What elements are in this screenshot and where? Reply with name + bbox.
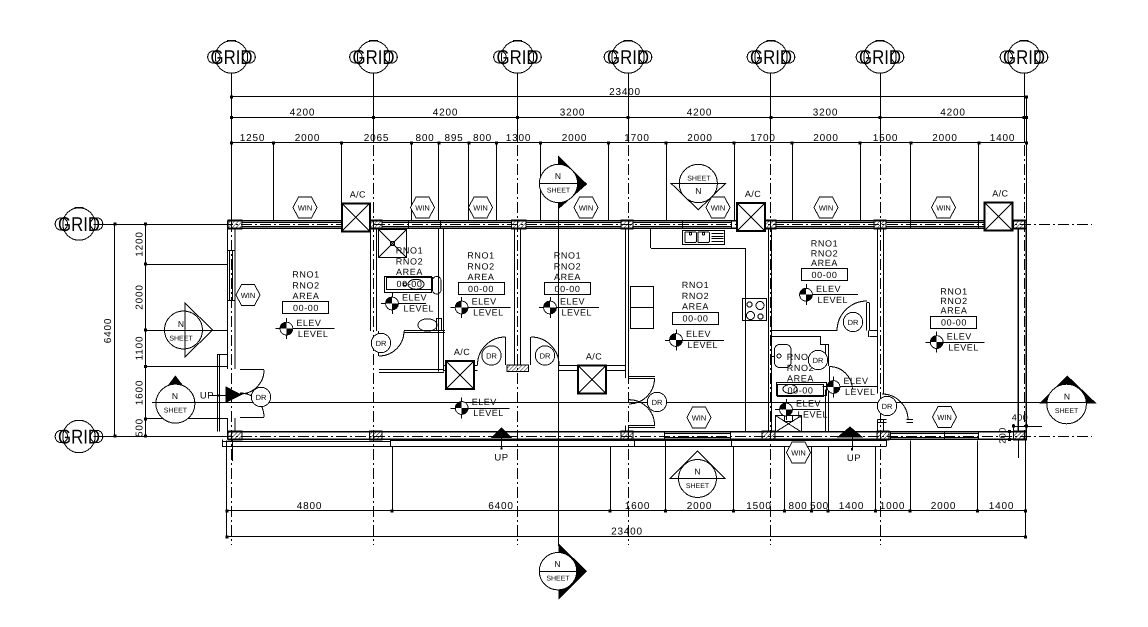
svg-text:4200: 4200 (687, 108, 712, 119)
elevation marker room 2 (451, 297, 511, 318)
svg-text:RNO1: RNO1 (811, 239, 838, 249)
elevation marker hall (451, 397, 510, 418)
bathroom 2 right wall (825, 345, 827, 366)
grid line B stem (94, 436, 228, 438)
wall pier T7 (hatched) (1014, 220, 1027, 229)
bathroom 1 right wall (438, 228, 440, 371)
svg-text:SHEET: SHEET (164, 408, 188, 415)
room 5 door leaf and swing (866, 303, 868, 331)
elevation marker kitchen (665, 329, 724, 350)
grid line 4 stem (628, 74, 630, 144)
right apron edge (1018, 440, 1020, 458)
shower 2 (776, 416, 802, 433)
svg-text:895: 895 (444, 133, 463, 144)
svg-text:AREA: AREA (468, 272, 495, 282)
living room divider wall (745, 248, 747, 432)
hall wall segment west (444, 365, 478, 367)
svg-text:GRID: GRID (750, 47, 792, 69)
air conditioner A/C 3 (984, 189, 1012, 231)
grid line 4 centerline (628, 145, 630, 545)
svg-text:WIN: WIN (819, 203, 834, 212)
section cut line horizontal (152, 402, 1095, 404)
elevation marker bathroom 2 (775, 399, 828, 420)
svg-text:800: 800 (788, 501, 807, 512)
terrace UP arrow (492, 428, 511, 438)
grid line 2 centerline (373, 145, 375, 545)
svg-text:00-00: 00-00 (787, 386, 813, 396)
svg-text:AREA: AREA (941, 305, 968, 315)
room label room 3 (545, 251, 591, 295)
hall top wall (room1 side) (379, 369, 444, 371)
room label room 7 (931, 287, 977, 329)
left exterior wall (228, 221, 236, 440)
section marker left lower (filled up arrow) (152, 376, 228, 423)
svg-text:6400: 6400 (488, 501, 513, 512)
window tag WIN 7 (814, 197, 838, 218)
bathroom 2 door leaf and swing (829, 367, 831, 390)
svg-text:DR: DR (652, 398, 663, 407)
svg-text:00-00: 00-00 (293, 303, 319, 313)
elevation marker room 1 (275, 318, 334, 339)
svg-text:2000: 2000 (813, 133, 838, 144)
svg-text:RNO1: RNO1 (292, 270, 319, 280)
grid line 2 stem (373, 74, 375, 144)
svg-text:2000: 2000 (562, 133, 587, 144)
left entry double door swings (240, 370, 264, 394)
svg-text:2000: 2000 (295, 133, 320, 144)
elevation marker bathroom 1 (381, 293, 434, 314)
grid line 5 centerline (770, 145, 772, 545)
hall wall segment east (559, 365, 626, 367)
air conditioner A/C 1 (342, 189, 370, 231)
grid line 1 stem (231, 74, 233, 144)
svg-text:N: N (178, 319, 184, 329)
svg-text:2065: 2065 (364, 133, 389, 144)
svg-text:1600: 1600 (625, 501, 650, 512)
grid bubble 5 (top) (747, 41, 795, 74)
svg-text:LEVEL: LEVEL (688, 340, 719, 350)
svg-text:WIN: WIN (241, 291, 256, 300)
wall pier T5 (hatched) (764, 220, 776, 229)
svg-text:RNO2: RNO2 (554, 261, 581, 271)
door tag DR 6 (808, 350, 827, 369)
partition wall rooms 6-7 (877, 228, 879, 393)
grid line 3 stem (517, 74, 519, 144)
top dimension extension lines (232, 97, 1027, 221)
svg-text:SHEET: SHEET (547, 188, 571, 195)
section marker right (filled up arrow) (1040, 376, 1095, 424)
svg-text:SHEET: SHEET (1055, 408, 1079, 415)
svg-text:RNO2: RNO2 (682, 291, 709, 301)
svg-text:WIN: WIN (711, 203, 726, 212)
overall left dimension 6400 (103, 223, 117, 438)
air conditioner A/C 4 (446, 347, 474, 389)
svg-text:GRID: GRID (353, 47, 395, 69)
partition wall rooms 2-3 (514, 228, 516, 365)
svg-text:DR: DR (486, 351, 497, 360)
svg-text:00-00: 00-00 (941, 317, 967, 327)
svg-text:00-00: 00-00 (682, 314, 708, 324)
svg-text:DR: DR (813, 356, 824, 365)
svg-text:RNO1: RNO1 (396, 246, 423, 256)
svg-text:1600: 1600 (135, 380, 146, 405)
svg-text:A/C: A/C (745, 189, 761, 199)
room 3 door leaf and swing (530, 337, 532, 365)
grid bubble A (left top) (55, 208, 103, 241)
wall pier B2 (hatched) (370, 431, 383, 440)
door tag DR 8 (877, 396, 896, 415)
svg-text:23400: 23400 (611, 527, 643, 538)
bathroom 2 top wall (770, 336, 821, 338)
top exterior wall (228, 221, 1027, 229)
svg-text:N: N (1064, 391, 1070, 401)
svg-text:AREA: AREA (396, 267, 423, 277)
grid bubble 2 (top) (350, 41, 398, 74)
svg-text:N: N (694, 467, 700, 477)
elevation marker room 7 (926, 331, 985, 352)
svg-text:LEVEL: LEVEL (798, 410, 829, 420)
grid bubble 6 (top) (856, 41, 904, 74)
grid line 6 stem (880, 74, 882, 144)
svg-text:LEVEL: LEVEL (948, 342, 979, 352)
svg-text:A/C: A/C (586, 352, 602, 362)
svg-text:GRID: GRID (58, 427, 100, 449)
wall pier B3 (hatched) (621, 431, 633, 440)
grid line 7 stem (1024, 74, 1026, 144)
svg-text:WIN: WIN (579, 203, 594, 212)
grid line 7 centerline (1024, 145, 1026, 440)
room 7 door swing (882, 394, 908, 420)
svg-text:DR: DR (848, 318, 859, 327)
left apron edge (222, 441, 390, 443)
door tag DR 4 (535, 346, 554, 365)
svg-text:500: 500 (810, 501, 829, 512)
svg-text:6400: 6400 (103, 318, 114, 343)
svg-text:1250: 1250 (240, 133, 265, 144)
svg-text:2000: 2000 (932, 133, 957, 144)
wall pier hall (hatched) (507, 365, 529, 371)
grid bubble 1 (top) (208, 41, 256, 74)
svg-text:4800: 4800 (297, 501, 322, 512)
section marker top (filled right arrow) (539, 157, 586, 221)
svg-text:1300: 1300 (506, 133, 531, 144)
svg-text:N: N (554, 559, 560, 569)
window tag WIN 2 (293, 197, 317, 218)
grid line 5 stem (770, 74, 772, 144)
svg-text:2000: 2000 (687, 133, 712, 144)
svg-text:N: N (172, 391, 178, 401)
svg-text:GRID: GRID (607, 47, 649, 69)
bottom fine dimensions row (226, 501, 1028, 513)
left dimension extension lines (146, 265, 228, 419)
air conditioner A/C 5 (578, 352, 606, 394)
window tag WIN 5 (574, 197, 598, 218)
svg-text:DR: DR (376, 339, 387, 348)
svg-text:RNO2: RNO2 (292, 280, 319, 290)
stove (743, 299, 767, 321)
grid line 6 centerline (880, 145, 882, 545)
window tag WIN 11 (787, 442, 811, 463)
section marker left middle (open right arrow) (152, 303, 228, 357)
window tag WIN 1 (236, 285, 260, 306)
svg-text:GRID: GRID (1003, 47, 1045, 69)
svg-text:200: 200 (998, 427, 1008, 444)
section marker top middle (down triangle) (671, 164, 725, 209)
svg-text:1500: 1500 (873, 133, 898, 144)
svg-text:LEVEL: LEVEL (818, 295, 849, 305)
svg-text:1500: 1500 (746, 501, 771, 512)
top tier dimensions row (230, 108, 1028, 120)
elevation marker room 3 (539, 297, 599, 318)
svg-text:ELEV: ELEV (947, 331, 972, 341)
room label bathroom 1 (387, 246, 433, 290)
svg-text:1700: 1700 (750, 133, 775, 144)
svg-text:A/C: A/C (454, 347, 470, 357)
svg-text:SHEET: SHEET (169, 336, 193, 343)
svg-text:AREA: AREA (787, 374, 814, 384)
svg-text:23400: 23400 (609, 87, 641, 98)
left entry step (218, 354, 228, 356)
svg-text:3200: 3200 (813, 108, 838, 119)
bathroom 1 door leaf and swing (378, 331, 380, 356)
section cut line vertical (558, 201, 560, 547)
svg-text:00-00: 00-00 (468, 284, 494, 294)
bottom exterior wall (228, 432, 1027, 440)
svg-text:800: 800 (415, 133, 434, 144)
door tag DR 5 (647, 392, 666, 411)
svg-text:GRID: GRID (859, 47, 901, 69)
grid line B centerline (146, 436, 1092, 438)
svg-text:RNO2: RNO2 (396, 256, 423, 266)
kitchen left partition wall (625, 228, 627, 378)
section marker bottom middle (up triangle) (670, 451, 725, 497)
svg-text:WIN: WIN (936, 203, 951, 212)
room label room 2 (459, 251, 505, 295)
kitchen right partition wall (768, 228, 770, 431)
wall pier B5 (hatched) (877, 431, 889, 440)
svg-text:RNO1: RNO1 (467, 251, 494, 261)
svg-text:ELEV: ELEV (472, 397, 497, 407)
room label room 1 (283, 270, 329, 314)
window tag WIN 4 (469, 197, 493, 218)
svg-text:500: 500 (135, 418, 146, 437)
door tag DR 7 (843, 312, 862, 331)
basin 2 (771, 345, 792, 368)
svg-text:SHEET: SHEET (687, 175, 711, 182)
svg-text:WIN: WIN (298, 203, 313, 212)
svg-text:ELEV: ELEV (296, 318, 321, 328)
bathroom 1 bottom wall (404, 330, 445, 332)
svg-text:ELEV: ELEV (816, 284, 841, 294)
svg-text:LEVEL: LEVEL (845, 387, 876, 397)
corner mini dimension 200 (998, 427, 1012, 444)
grid bubble B (left bottom) (55, 420, 103, 452)
door tag DR 3 (482, 346, 501, 365)
section marker bottom (filled right arrow) (539, 544, 586, 599)
overall top dimension 23400 (230, 87, 1028, 99)
svg-text:1100: 1100 (135, 336, 146, 361)
svg-text:ELEV: ELEV (796, 399, 821, 409)
svg-text:DR: DR (882, 402, 893, 411)
left entry arrow (226, 387, 241, 402)
svg-text:4200: 4200 (433, 108, 458, 119)
top fine dimensions row (230, 133, 1028, 145)
svg-text:WIN: WIN (692, 413, 707, 422)
room label bathroom 2 (778, 352, 824, 397)
wall pier T2 (hatched) (370, 220, 383, 229)
door tag DR 1 (251, 387, 270, 406)
svg-text:3200: 3200 (560, 108, 585, 119)
svg-text:N: N (555, 171, 561, 181)
svg-text:RNO2: RNO2 (811, 248, 838, 258)
svg-text:ELEV: ELEV (402, 293, 427, 303)
window tag WIN 9 (687, 407, 711, 428)
svg-text:WIN: WIN (473, 203, 488, 212)
toilet 1 (418, 319, 442, 332)
svg-text:LEVEL: LEVEL (404, 304, 435, 314)
right exterior wall (1018, 221, 1026, 440)
svg-text:UP: UP (494, 453, 508, 464)
wall pier T4 (hatched) (621, 220, 633, 229)
left fine dimensions column (135, 223, 148, 438)
mirror cabinet 1 (433, 277, 442, 295)
vanity 2 (777, 383, 827, 396)
svg-text:A/C: A/C (992, 189, 1008, 199)
svg-text:ELEV: ELEV (472, 297, 497, 307)
kitchen cabinets (631, 287, 654, 329)
svg-text:ELEV: ELEV (844, 376, 869, 386)
terrace edge (390, 440, 886, 442)
grid bubble 3 (top) (494, 41, 542, 74)
svg-text:2000: 2000 (931, 501, 956, 512)
elevation marker bathroom 2 east (823, 376, 878, 397)
svg-text:GRID: GRID (211, 47, 253, 69)
svg-text:RNO1: RNO1 (682, 280, 709, 290)
svg-text:A/C: A/C (350, 189, 366, 199)
svg-text:AREA: AREA (811, 258, 838, 268)
svg-text:LEVEL: LEVEL (298, 329, 329, 339)
svg-text:00-00: 00-00 (811, 270, 837, 280)
svg-text:1700: 1700 (624, 133, 649, 144)
shower 1 (379, 230, 407, 258)
svg-text:AREA: AREA (293, 291, 320, 301)
svg-text:AREA: AREA (682, 302, 709, 312)
svg-text:4200: 4200 (940, 108, 965, 119)
room label room 5 (802, 239, 848, 281)
svg-text:LEVEL: LEVEL (473, 408, 504, 418)
svg-text:1400: 1400 (989, 501, 1014, 512)
svg-text:DR: DR (540, 351, 551, 360)
wall pier T1 (hatched) (228, 220, 242, 229)
corner mini dimension 400 (1012, 413, 1042, 432)
room 5 south wall (770, 330, 837, 332)
svg-text:RNO2: RNO2 (467, 261, 494, 271)
kitchen sink (683, 231, 725, 245)
svg-text:2000: 2000 (687, 501, 712, 512)
room label kitchen (673, 280, 719, 325)
svg-text:SHEET: SHEET (686, 483, 710, 490)
svg-text:800: 800 (473, 133, 492, 144)
wall pier T6 (hatched) (874, 220, 886, 229)
room 2 door leaf and swing (505, 337, 507, 365)
vanity 1 (385, 277, 432, 293)
window tag WIN 8 (932, 197, 956, 218)
svg-text:LEVEL: LEVEL (562, 308, 593, 318)
svg-text:ELEV: ELEV (560, 297, 585, 307)
kitchen counter edge (651, 248, 746, 250)
grid line 1 centerline (231, 145, 233, 545)
window tag WIN 6 (706, 197, 730, 218)
bathroom 1 left wall (370, 228, 372, 331)
overall bottom dimension 23400 (226, 527, 1028, 539)
wall pier B4 (hatched) (762, 431, 775, 440)
svg-text:WIN: WIN (937, 413, 952, 422)
door tag DR 2 (371, 333, 390, 352)
svg-text:2000: 2000 (135, 284, 146, 309)
window tag WIN 3 (411, 197, 435, 218)
svg-text:RNO1: RNO1 (554, 251, 581, 261)
svg-text:N: N (695, 186, 701, 196)
svg-text:UP: UP (847, 453, 861, 464)
grid bubble 7 (top) (1000, 41, 1048, 74)
entry UP arrow east (838, 427, 862, 437)
elevation marker room 5 (800, 284, 858, 305)
svg-text:1200: 1200 (135, 231, 146, 256)
wall pier B6 (hatched) (1014, 431, 1027, 440)
svg-text:SHEET: SHEET (546, 576, 570, 583)
grid bubble 4 (top) (604, 41, 652, 74)
window tag WIN 10 (933, 407, 957, 428)
svg-text:LEVEL: LEVEL (473, 308, 504, 318)
svg-text:ELEV: ELEV (686, 329, 711, 339)
svg-text:WIN: WIN (415, 203, 430, 212)
grid line 3 centerline (517, 145, 519, 545)
svg-text:DR: DR (256, 393, 267, 402)
svg-text:GRID: GRID (497, 47, 539, 69)
svg-text:4200: 4200 (290, 108, 315, 119)
svg-text:WIN: WIN (791, 448, 806, 457)
grid line A centerline (146, 224, 1092, 226)
svg-text:1000: 1000 (880, 501, 905, 512)
svg-text:00-00: 00-00 (554, 284, 580, 294)
air conditioner A/C 2 (737, 189, 765, 231)
svg-text:00-00: 00-00 (396, 279, 422, 289)
grid line A stem (94, 224, 228, 226)
svg-text:1400: 1400 (990, 133, 1015, 144)
bottom dimension extension lines (227, 441, 1026, 538)
wall pier B1 (hatched) (228, 431, 242, 440)
kitchen double door leaves and swings (629, 376, 655, 378)
svg-text:AREA: AREA (554, 272, 581, 282)
wall pier T3 (hatched) (512, 220, 527, 229)
svg-text:1400: 1400 (839, 501, 864, 512)
